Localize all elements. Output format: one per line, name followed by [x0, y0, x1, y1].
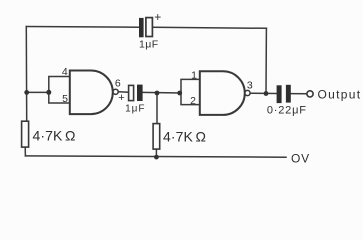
wire gate 1 output to C2 [118, 91, 128, 93]
node junction dot gate 2 input [177, 91, 182, 96]
capacitor C1 1uF electrolytic, top feedback [139, 10, 161, 37]
nand gate U1b body [200, 71, 245, 115]
wire node to R2 [156, 93, 158, 124]
wire C3 to output terminal [291, 93, 307, 95]
svg-text:5: 5 [62, 93, 68, 105]
svg-text:1: 1 [191, 69, 197, 81]
svg-text:Output: Output [318, 87, 362, 101]
wire feedback drop to gate 2 output [265, 28, 267, 93]
wire R2 bottom lead [155, 149, 157, 157]
output terminal circle [307, 91, 313, 97]
capacitor C3 0.22uF output coupling [277, 85, 291, 103]
wire top rail right segment [153, 27, 267, 28]
resistor R1 body [22, 121, 29, 147]
nand gate U1a output bubble [113, 89, 118, 94]
node junction dot C2/R2 [155, 91, 160, 96]
svg-text:OV: OV [291, 152, 310, 166]
nand gate U1a body [70, 71, 113, 115]
svg-text:6: 6 [115, 77, 121, 89]
wire gate 1 input tie [49, 77, 70, 104]
wire left supply rail [25, 27, 27, 122]
node junction dot gate 1 input [46, 90, 51, 95]
svg-text:4·7KΩ: 4·7KΩ [163, 128, 206, 144]
svg-text:1μF: 1μF [139, 39, 159, 51]
svg-text:3: 3 [247, 79, 253, 91]
resistor R2 body [153, 124, 160, 150]
node junction dot bottom rail [154, 155, 159, 160]
svg-text:4: 4 [62, 66, 68, 78]
wire 0V bottom rail [25, 156, 286, 157]
svg-text:2: 2 [190, 95, 196, 107]
wire gate 2 input tie [181, 79, 200, 104]
wire C2 to gate 2 input node [143, 91, 181, 94]
wire top rail left segment [26, 26, 139, 29]
svg-text:4·7KΩ: 4·7KΩ [33, 128, 76, 144]
svg-text:+: + [154, 10, 161, 24]
svg-text:1μF: 1μF [125, 104, 145, 115]
wire gate 2 output to C3 [250, 92, 277, 94]
wire R1 bottom lead [24, 147, 26, 156]
nand gate U1b output bubble [245, 90, 250, 95]
node junction dot left rail [24, 90, 29, 95]
capacitor C2 1uF electrolytic, coupling [118, 85, 142, 104]
svg-text:0·22μF: 0·22μF [267, 104, 307, 116]
node junction dot gate 2 output/feedback [264, 91, 269, 96]
svg-text:+: + [118, 92, 124, 104]
wire input to gate 1 [27, 91, 49, 93]
